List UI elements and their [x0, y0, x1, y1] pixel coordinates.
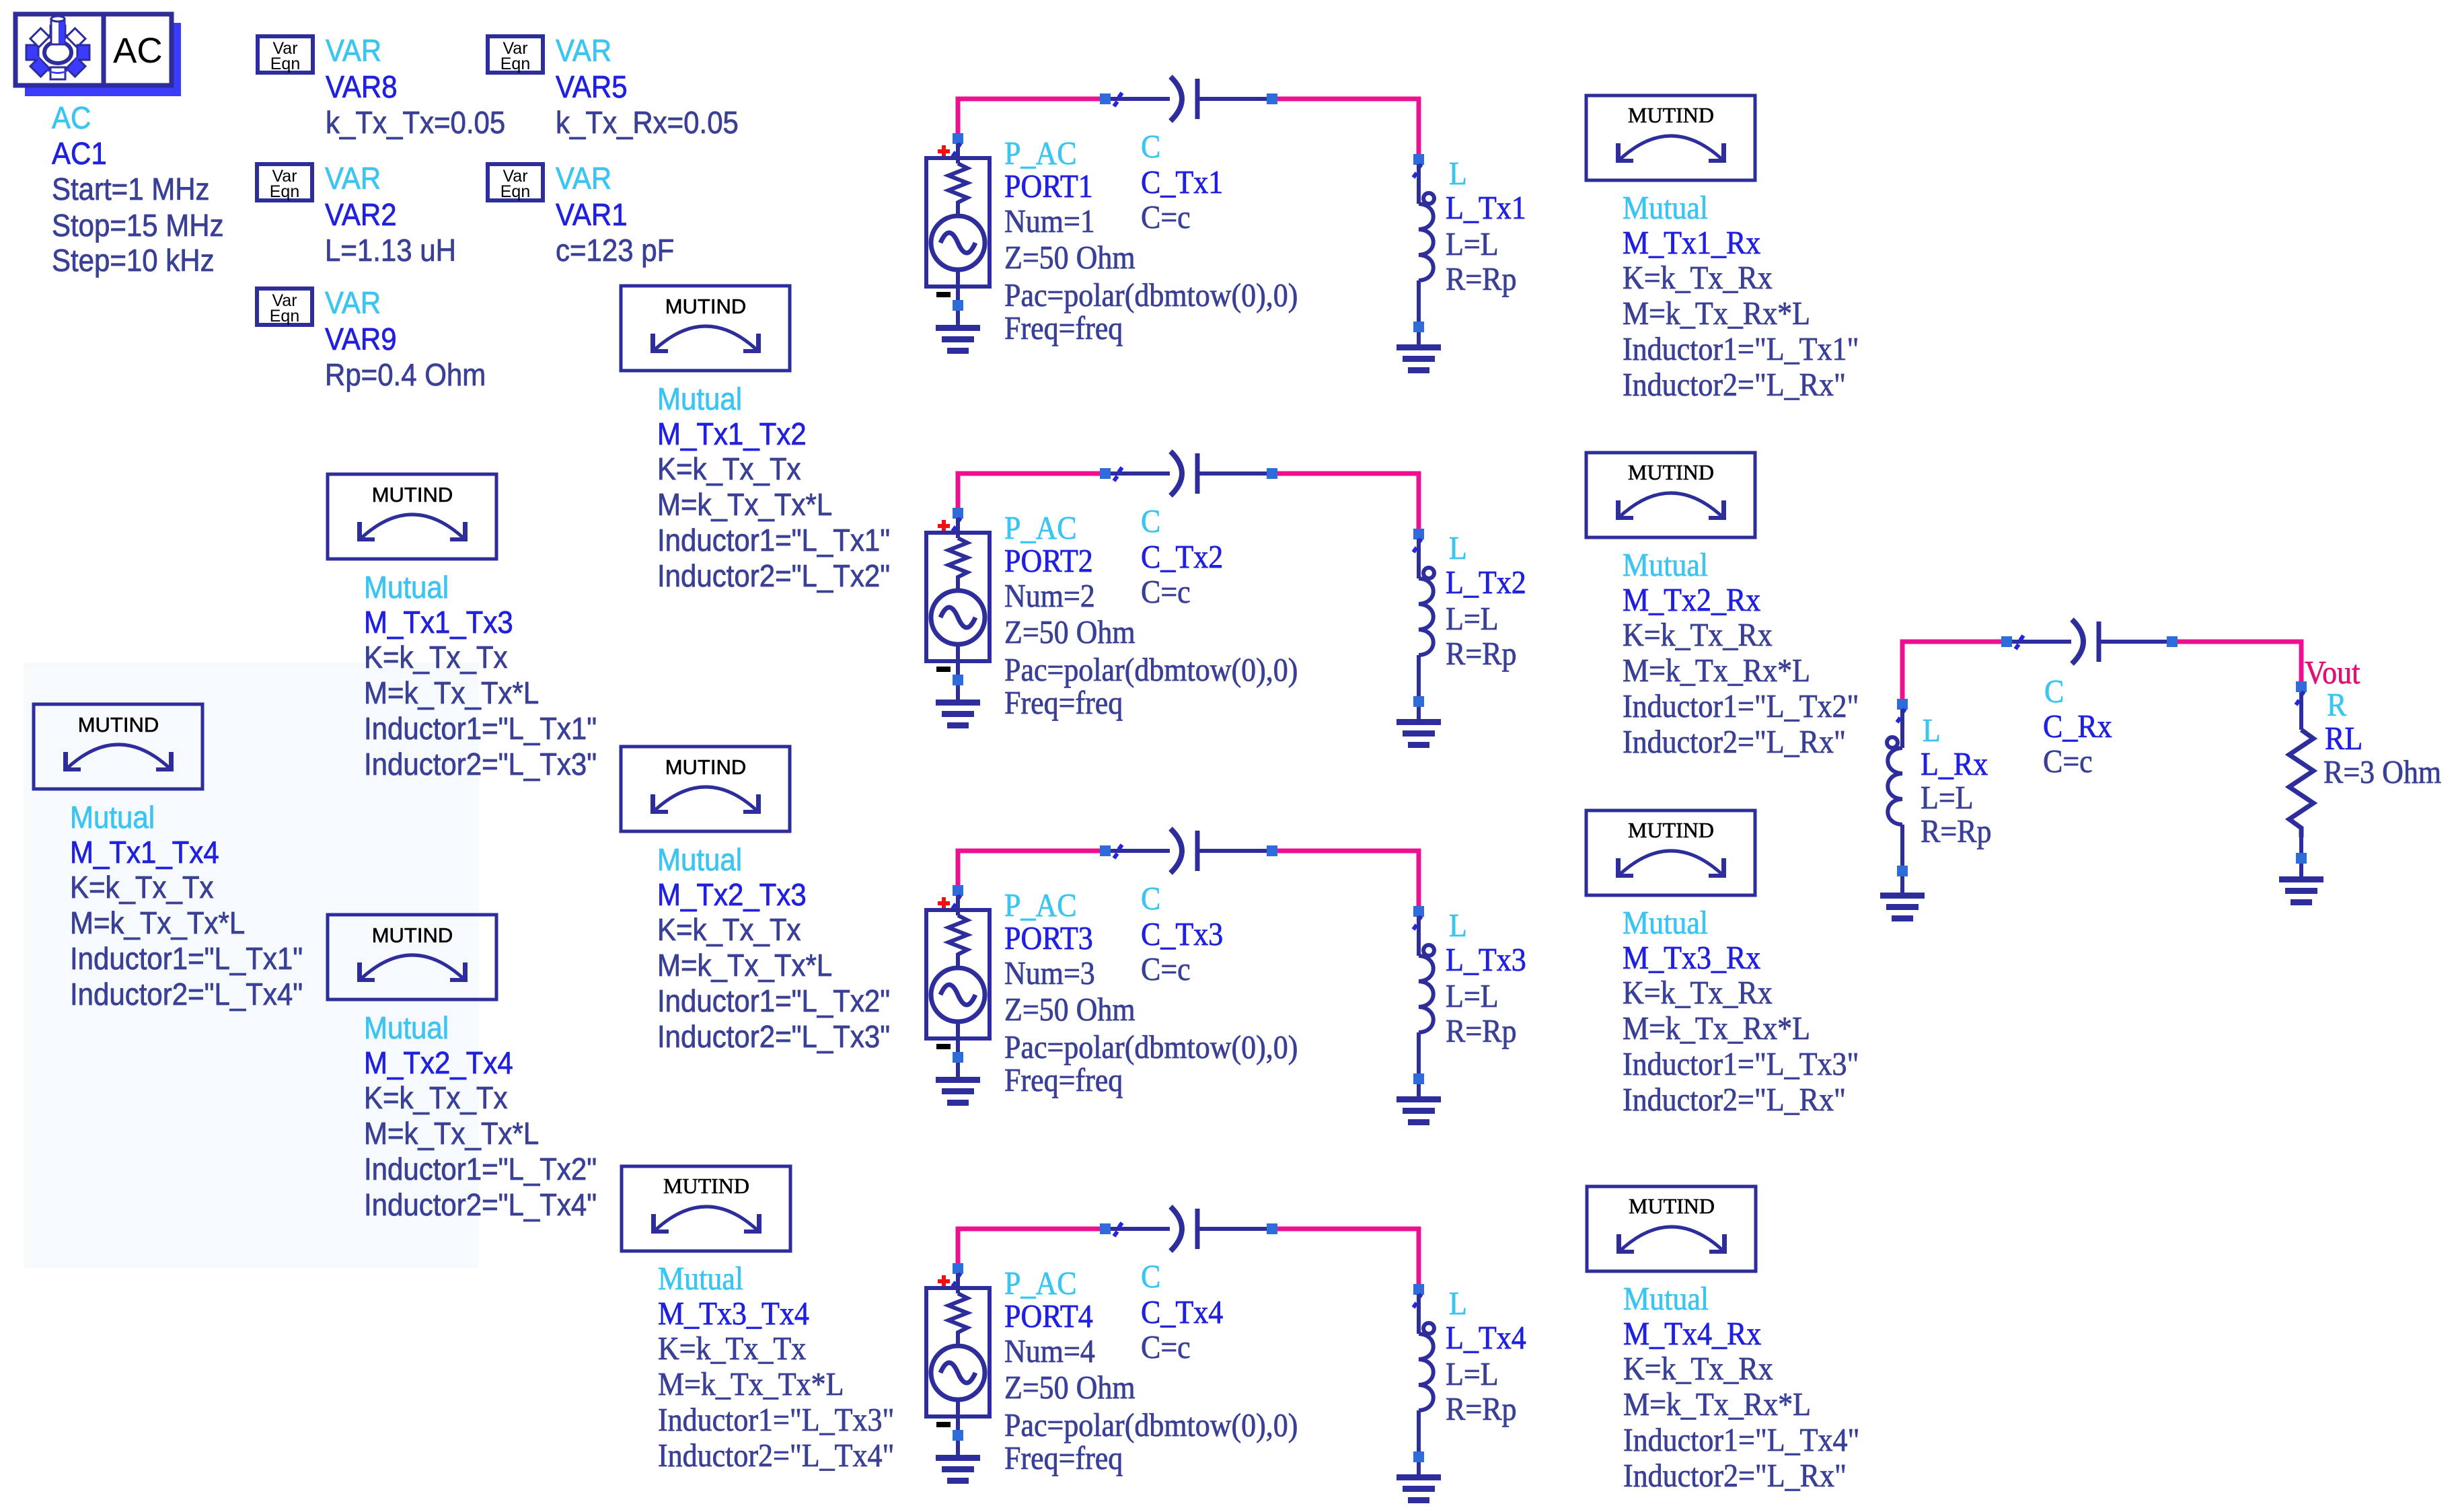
- svg-text:AC: AC: [113, 31, 163, 71]
- svg-text:Inductor1="L_Tx2": Inductor1="L_Tx2": [657, 984, 890, 1018]
- M_Tx1_Tx2 coupling arc: [655, 326, 757, 350]
- svg-text:M_Tx3_Tx4: M_Tx3_Tx4: [658, 1296, 809, 1332]
- wire C_Rx to Vout/RL: [2177, 642, 2301, 683]
- svg-text:C=c: C=c: [1141, 200, 1191, 236]
- svg-text:Z=50 Ohm: Z=50 Ohm: [1004, 615, 1136, 651]
- svg-text:K=k_Tx_Rx: K=k_Tx_Rx: [1623, 1351, 1773, 1388]
- node junction P1b: [1267, 93, 1277, 104]
- svg-text:R=Rp: R=Rp: [1446, 262, 1516, 298]
- svg-text:C: C: [1141, 504, 1160, 540]
- svg-text:Inductor1="L_Tx2": Inductor1="L_Tx2": [364, 1152, 597, 1186]
- svg-text:MUTIND: MUTIND: [663, 1174, 749, 1198]
- svg-text:C=c: C=c: [1141, 1330, 1191, 1366]
- node junction P4a: [1100, 1223, 1111, 1234]
- node junction Vout: [2296, 681, 2307, 692]
- pin PORT3.+: [953, 895, 961, 909]
- svg-text:K=k_Tx_Tx: K=k_Tx_Tx: [658, 1331, 806, 1367]
- svg-text:Inductor2="L_Rx": Inductor2="L_Rx": [1623, 1458, 1847, 1495]
- svg-text:L=L: L=L: [1446, 601, 1499, 638]
- minus sign PORT2: [936, 667, 951, 672]
- svg-text:L=1.13 uH: L=1.13 uH: [325, 233, 456, 268]
- svg-text:PORT3: PORT3: [1004, 921, 1093, 957]
- svg-text:AC1: AC1: [52, 137, 107, 171]
- node junction PORT2+: [953, 508, 963, 519]
- wire PORT3 to C_Tx3: [958, 851, 1101, 893]
- svg-text:PORT2: PORT2: [1004, 543, 1093, 580]
- svg-text:VAR: VAR: [325, 286, 381, 320]
- pin L_Tx2.1: [1413, 539, 1421, 552]
- svg-text:M_Tx2_Tx4: M_Tx2_Tx4: [364, 1046, 513, 1080]
- resistor of PORT2 source: [948, 538, 967, 592]
- svg-text:L=L: L=L: [1446, 227, 1499, 263]
- node junction P4b: [1267, 1223, 1277, 1234]
- svg-text:Pac=polar(dbmtow(0),0): Pac=polar(dbmtow(0),0): [1004, 1408, 1298, 1444]
- svg-text:Inductor1="L_Tx3": Inductor1="L_Tx3": [1623, 1047, 1859, 1083]
- resistor of PORT3 source: [948, 915, 967, 969]
- svg-text:M=k_Tx_Rx*L: M=k_Tx_Rx*L: [1623, 653, 1810, 689]
- svg-text:Eqn: Eqn: [270, 54, 300, 73]
- svg-text:M=k_Tx_Rx*L: M=k_Tx_Rx*L: [1623, 296, 1810, 332]
- M_Tx1_Tx4 coupling arc: [67, 745, 170, 768]
- ground PORT4: [936, 1455, 980, 1484]
- ground L_Tx3: [1397, 1096, 1441, 1125]
- node junction L_Tx4.1: [1413, 1284, 1424, 1295]
- node junction L_Tx1.1: [1413, 154, 1424, 165]
- svg-text:Eqn: Eqn: [500, 182, 530, 201]
- wire PORT4 to C_Tx4: [958, 1229, 1101, 1271]
- svg-text:Eqn: Eqn: [500, 54, 530, 73]
- svg-text:Inductor2="L_Rx": Inductor2="L_Rx": [1623, 724, 1846, 761]
- inductor L_Tx2: [1423, 568, 1434, 578]
- svg-text:L=L: L=L: [1446, 1357, 1499, 1393]
- node junction P1a: [1100, 93, 1111, 104]
- pin C_Tx1.1: [1114, 93, 1122, 106]
- inductor L_Tx1: [1423, 193, 1434, 204]
- svg-text:M=k_Tx_Tx*L: M=k_Tx_Tx*L: [658, 1367, 844, 1403]
- gear icon: [36, 34, 80, 71]
- node junction PORT1+: [953, 133, 963, 144]
- svg-text:VAR: VAR: [325, 161, 381, 196]
- svg-text:L_Tx2: L_Tx2: [1446, 565, 1526, 601]
- svg-text:Inductor1="L_Tx3": Inductor1="L_Tx3": [658, 1402, 894, 1439]
- svg-text:Inductor1="L_Tx1": Inductor1="L_Tx1": [364, 712, 597, 746]
- minus sign PORT4: [936, 1422, 951, 1427]
- svg-text:M=k_Tx_Rx*L: M=k_Tx_Rx*L: [1623, 1011, 1810, 1047]
- svg-text:C=c: C=c: [1141, 574, 1191, 611]
- svg-text:K=k_Tx_Rx: K=k_Tx_Rx: [1623, 975, 1773, 1012]
- sine source circle PORT4: [931, 1346, 985, 1400]
- svg-text:L: L: [1449, 531, 1467, 567]
- svg-text:MUTIND: MUTIND: [78, 713, 159, 736]
- inductor L_Rx: [1887, 737, 1898, 748]
- svg-text:Pac=polar(dbmtow(0),0): Pac=polar(dbmtow(0),0): [1004, 278, 1298, 314]
- resistor of PORT1 source: [948, 163, 967, 217]
- svg-text:M=k_Tx_Tx*L: M=k_Tx_Tx*L: [364, 1117, 539, 1151]
- svg-text:C=c: C=c: [1141, 952, 1191, 988]
- svg-text:P_AC: P_AC: [1004, 888, 1077, 924]
- svg-text:C_Tx3: C_Tx3: [1141, 917, 1223, 953]
- svg-text:Inductor2="L_Tx3": Inductor2="L_Tx3": [657, 1020, 890, 1054]
- svg-text:M_Tx4_Rx: M_Tx4_Rx: [1623, 1316, 1761, 1353]
- svg-text:Z=50 Ohm: Z=50 Ohm: [1004, 992, 1136, 1028]
- ground PORT2: [936, 700, 980, 728]
- resistor of PORT4 source: [948, 1293, 967, 1347]
- ground PORT1: [936, 325, 980, 354]
- node junction P2b: [1267, 468, 1277, 479]
- svg-text:Mutual: Mutual: [364, 1011, 449, 1045]
- svg-text:Mutual: Mutual: [1623, 1281, 1709, 1318]
- svg-text:VAR: VAR: [556, 161, 611, 196]
- svg-text:Inductor2="L_Tx4": Inductor2="L_Tx4": [70, 977, 303, 1012]
- wire C_Tx2 to L_Tx2: [1276, 474, 1419, 535]
- plus sign PORT3: [938, 897, 950, 909]
- svg-text:C_Tx1: C_Tx1: [1141, 165, 1223, 201]
- capacitor C_Tx2: [1111, 451, 1267, 496]
- svg-text:VAR: VAR: [326, 34, 381, 68]
- mutual inductor M_Tx2_Tx3 symbol (MUTIND box): [621, 747, 790, 831]
- mutual inductor M_Tx2_Rx symbol (MUTIND box): [1586, 453, 1755, 537]
- node junction L_Tx2.2: [1413, 696, 1424, 707]
- pin C_Rx.1: [2015, 636, 2023, 649]
- svg-text:MUTIND: MUTIND: [665, 755, 747, 779]
- svg-text:Inductor2="L_Rx": Inductor2="L_Rx": [1623, 1082, 1846, 1119]
- node junction P2a: [1100, 468, 1111, 479]
- svg-text:K=k_Tx_Tx: K=k_Tx_Tx: [364, 640, 508, 675]
- inductor L_Tx4: [1423, 1323, 1434, 1334]
- svg-text:M=k_Tx_Tx*L: M=k_Tx_Tx*L: [364, 676, 539, 710]
- svg-text:C_Tx2: C_Tx2: [1141, 539, 1223, 576]
- svg-text:Inductor2="L_Tx3": Inductor2="L_Tx3": [364, 747, 597, 782]
- node junction L_Tx4.2: [1413, 1451, 1424, 1462]
- ground L_Tx4: [1397, 1474, 1441, 1503]
- svg-text:Mutual: Mutual: [657, 843, 742, 877]
- svg-text:Eqn: Eqn: [270, 182, 299, 201]
- svg-text:Pac=polar(dbmtow(0),0): Pac=polar(dbmtow(0),0): [1004, 1030, 1298, 1066]
- capacitor C_Tx1: [1111, 77, 1267, 121]
- svg-text:MUTIND: MUTIND: [665, 295, 747, 318]
- svg-text:Inductor1="L_Tx4": Inductor1="L_Tx4": [1623, 1423, 1859, 1459]
- svg-text:Inductor1="L_Tx1": Inductor1="L_Tx1": [657, 523, 890, 558]
- svg-text:P_AC: P_AC: [1004, 136, 1077, 172]
- node junction PORT1-: [953, 300, 963, 311]
- svg-text:R: R: [2327, 687, 2346, 724]
- node junction L_Rx.1: [1897, 699, 1908, 710]
- svg-text:Freq=freq: Freq=freq: [1004, 1441, 1123, 1477]
- ground L_Rx: [1880, 893, 1925, 921]
- pin C_Tx4.1: [1114, 1223, 1122, 1236]
- svg-text:K=k_Tx_Tx: K=k_Tx_Tx: [364, 1081, 508, 1115]
- svg-text:Mutual: Mutual: [658, 1261, 743, 1297]
- M_Tx2_Tx3 coupling arc: [655, 787, 757, 810]
- M_Tx1_Tx3 coupling arc: [361, 515, 463, 538]
- svg-text:Freq=freq: Freq=freq: [1004, 311, 1123, 347]
- pin L_Tx4.1: [1413, 1294, 1421, 1308]
- minus sign PORT1: [936, 292, 951, 297]
- M_Tx3_Tx4 coupling arc: [655, 1207, 757, 1230]
- svg-text:C: C: [1141, 129, 1160, 165]
- svg-text:MUTIND: MUTIND: [1628, 103, 1714, 127]
- svg-text:L=L: L=L: [1446, 979, 1499, 1015]
- svg-text:M=k_Tx_Tx*L: M=k_Tx_Tx*L: [657, 948, 832, 983]
- svg-text:MUTIND: MUTIND: [372, 483, 453, 506]
- inductor L_Tx3: [1423, 945, 1434, 956]
- svg-text:Pac=polar(dbmtow(0),0): Pac=polar(dbmtow(0),0): [1004, 652, 1298, 689]
- svg-text:VAR5: VAR5: [556, 70, 628, 104]
- svg-text:VAR8: VAR8: [326, 70, 398, 104]
- svg-text:L=L: L=L: [1921, 780, 1974, 817]
- svg-text:K=k_Tx_Tx: K=k_Tx_Tx: [657, 913, 801, 947]
- VAR equation block VAR9: [257, 289, 312, 325]
- mutual inductor M_Tx3_Rx symbol (MUTIND box): [1586, 810, 1755, 895]
- svg-text:R=Rp: R=Rp: [1446, 1014, 1516, 1050]
- pin C_Tx2.1: [1114, 467, 1122, 481]
- svg-text:VAR1: VAR1: [556, 198, 628, 232]
- wire C_Tx3 to L_Tx3: [1276, 851, 1419, 913]
- svg-text:Mutual: Mutual: [70, 800, 155, 835]
- svg-text:Stop=15 MHz: Stop=15 MHz: [52, 209, 224, 243]
- node junction L_Tx1.2: [1413, 322, 1424, 332]
- ground RL: [2279, 876, 2323, 905]
- VAR equation block VAR5: [488, 36, 543, 73]
- mutual inductor M_Tx1_Tx3 symbol (MUTIND box): [328, 474, 496, 559]
- svg-text:Start=1 MHz: Start=1 MHz: [52, 172, 210, 206]
- resistor RL: [2299, 692, 2303, 730]
- wire L_Rx to C_Rx: [1902, 642, 2002, 706]
- capacitor C_Rx: [2012, 619, 2169, 664]
- pin PORT2.+: [953, 518, 961, 531]
- node junction PORT4+: [953, 1263, 963, 1274]
- node junction Rxa: [2001, 636, 2012, 647]
- plus sign PORT4: [938, 1275, 950, 1287]
- svg-text:Inductor2="L_Tx2": Inductor2="L_Tx2": [657, 559, 890, 593]
- svg-text:L: L: [1449, 1286, 1467, 1322]
- svg-text:R=Rp: R=Rp: [1921, 814, 1991, 850]
- sine source circle PORT2: [931, 591, 985, 644]
- node junction L_Rx.2: [1897, 866, 1908, 876]
- svg-text:VAR9: VAR9: [325, 322, 397, 356]
- mutual inductor M_Tx4_Rx symbol (MUTIND box): [1587, 1186, 1756, 1271]
- plus sign PORT2: [938, 520, 950, 532]
- minus sign PORT3: [936, 1044, 951, 1049]
- M_Tx4_Rx coupling arc: [1621, 1227, 1723, 1250]
- node junction PORT4-: [953, 1430, 963, 1441]
- svg-text:L: L: [1923, 713, 1941, 749]
- node junction PORT3-: [953, 1052, 963, 1063]
- svg-text:Num=1: Num=1: [1004, 204, 1095, 240]
- mutual inductor M_Tx1_Tx4 symbol (MUTIND box): [34, 704, 202, 789]
- svg-text:VAR: VAR: [556, 34, 611, 68]
- svg-text:Eqn: Eqn: [270, 307, 299, 326]
- svg-text:C: C: [2044, 674, 2064, 710]
- svg-text:AC: AC: [52, 101, 91, 135]
- svg-text:k_Tx_Rx=0.05: k_Tx_Rx=0.05: [556, 106, 739, 140]
- pin PORT4.+: [953, 1273, 961, 1287]
- svg-text:L_Tx3: L_Tx3: [1446, 942, 1526, 979]
- sine source circle PORT3: [931, 968, 985, 1022]
- svg-text:M=k_Tx_Tx*L: M=k_Tx_Tx*L: [657, 488, 832, 522]
- svg-text:R=Rp: R=Rp: [1446, 636, 1516, 673]
- svg-text:MUTIND: MUTIND: [1628, 818, 1714, 842]
- mutual inductor M_Tx2_Tx4 symbol (MUTIND box): [328, 915, 496, 999]
- mutual inductor M_Tx1_Tx2 symbol (MUTIND box): [621, 286, 790, 371]
- wire PORT2 to C_Tx2: [958, 474, 1101, 515]
- pin L_Tx1.1: [1413, 164, 1421, 178]
- svg-text:C_Tx4: C_Tx4: [1141, 1295, 1223, 1331]
- capacitor C_Tx3: [1111, 829, 1267, 873]
- ground L_Tx1: [1397, 344, 1441, 373]
- node junction PORT3+: [953, 885, 963, 896]
- svg-text:M_Tx1_Tx3: M_Tx1_Tx3: [364, 605, 513, 640]
- svg-text:Mutual: Mutual: [657, 382, 742, 416]
- pin C_Tx3.1: [1114, 845, 1122, 858]
- pin L_Tx3.1: [1413, 916, 1421, 930]
- svg-text:M_Tx2_Rx: M_Tx2_Rx: [1623, 582, 1760, 619]
- svg-text:Inductor1="L_Tx1": Inductor1="L_Tx1": [70, 942, 303, 976]
- svg-text:VAR2: VAR2: [325, 198, 397, 232]
- ground L_Tx2: [1397, 719, 1441, 748]
- svg-text:C_Rx: C_Rx: [2043, 709, 2112, 745]
- VAR equation block VAR8: [258, 36, 313, 73]
- svg-text:PORT1: PORT1: [1004, 169, 1093, 205]
- svg-text:Vout: Vout: [2305, 655, 2360, 691]
- node junction PORT2-: [953, 675, 963, 685]
- M_Tx1_Rx coupling arc: [1620, 136, 1722, 159]
- svg-text:L: L: [1449, 908, 1467, 944]
- svg-text:Freq=freq: Freq=freq: [1004, 1063, 1123, 1099]
- svg-text:M_Tx3_Rx: M_Tx3_Rx: [1623, 940, 1760, 977]
- svg-text:Inductor2="L_Rx": Inductor2="L_Rx": [1623, 367, 1846, 404]
- node junction Rxb: [2167, 636, 2178, 647]
- svg-text:R=Rp: R=Rp: [1446, 1392, 1516, 1428]
- svg-text:C=c: C=c: [2043, 744, 2093, 780]
- node junction P3a: [1100, 845, 1111, 856]
- svg-text:M=k_Tx_Tx*L: M=k_Tx_Tx*L: [70, 906, 245, 940]
- svg-text:L_Tx4: L_Tx4: [1446, 1320, 1526, 1357]
- svg-text:k_Tx_Tx=0.05: k_Tx_Tx=0.05: [326, 106, 505, 140]
- VAR equation block VAR1: [488, 164, 543, 200]
- svg-text:MUTIND: MUTIND: [1629, 1194, 1715, 1218]
- capacitor C_Tx4: [1111, 1207, 1267, 1251]
- svg-text:RL: RL: [2325, 721, 2362, 757]
- svg-text:Z=50 Ohm: Z=50 Ohm: [1004, 240, 1136, 276]
- svg-text:K=k_Tx_Rx: K=k_Tx_Rx: [1623, 617, 1773, 654]
- svg-text:PORT4: PORT4: [1004, 1299, 1093, 1335]
- wire C_Tx1 to L_Tx1: [1276, 99, 1419, 161]
- svg-text:Rp=0.4 Ohm: Rp=0.4 Ohm: [325, 358, 486, 392]
- svg-text:Z=50 Ohm: Z=50 Ohm: [1004, 1370, 1136, 1406]
- svg-text:Inductor2="L_Tx4": Inductor2="L_Tx4": [364, 1188, 597, 1222]
- node junction L_Tx3.1: [1413, 906, 1424, 917]
- svg-text:Freq=freq: Freq=freq: [1004, 685, 1123, 722]
- wire C_Tx4 to L_Tx4: [1276, 1229, 1419, 1291]
- svg-text:L: L: [1449, 156, 1467, 192]
- svg-text:MUTIND: MUTIND: [1628, 460, 1714, 484]
- svg-text:Step=10 kHz: Step=10 kHz: [52, 243, 215, 278]
- svg-text:Mutual: Mutual: [1623, 190, 1708, 227]
- pin RL.1: [2296, 691, 2304, 705]
- node junction L_Tx3.2: [1413, 1073, 1424, 1084]
- svg-text:K=k_Tx_Rx: K=k_Tx_Rx: [1623, 260, 1773, 297]
- M_Tx2_Tx4 coupling arc: [361, 955, 463, 979]
- svg-text:C: C: [1141, 1259, 1160, 1295]
- wire PORT1 to C_Tx1: [958, 99, 1101, 141]
- M_Tx3_Rx coupling arc: [1620, 851, 1722, 874]
- svg-text:K=k_Tx_Tx: K=k_Tx_Tx: [657, 452, 801, 486]
- svg-text:Num=4: Num=4: [1004, 1334, 1095, 1370]
- svg-text:M_Tx1_Tx4: M_Tx1_Tx4: [70, 835, 219, 870]
- mutual inductor M_Tx3_Tx4 symbol (MUTIND box): [622, 1166, 790, 1251]
- svg-text:M=k_Tx_Rx*L: M=k_Tx_Rx*L: [1623, 1387, 1811, 1423]
- node junction L_Tx2.1: [1413, 529, 1424, 539]
- svg-text:Mutual: Mutual: [1623, 905, 1708, 942]
- svg-text:MUTIND: MUTIND: [372, 923, 453, 947]
- ground PORT3: [936, 1077, 980, 1106]
- svg-text:M_Tx2_Tx3: M_Tx2_Tx3: [657, 878, 807, 912]
- VAR equation block VAR2: [257, 164, 312, 200]
- node junction P3b: [1267, 845, 1277, 856]
- svg-text:Num=3: Num=3: [1004, 956, 1095, 992]
- svg-text:Mutual: Mutual: [1623, 547, 1708, 584]
- svg-text:Inductor1="L_Tx2": Inductor1="L_Tx2": [1623, 689, 1859, 725]
- svg-text:R=3 Ohm: R=3 Ohm: [2323, 755, 2441, 791]
- node junction RL.2: [2296, 853, 2307, 864]
- plus sign PORT1: [938, 145, 950, 157]
- sine source circle PORT1: [931, 216, 985, 270]
- svg-text:M_Tx1_Tx2: M_Tx1_Tx2: [657, 417, 807, 451]
- svg-text:P_AC: P_AC: [1004, 511, 1077, 547]
- M_Tx2_Rx coupling arc: [1620, 493, 1722, 517]
- svg-text:P_AC: P_AC: [1004, 1266, 1077, 1302]
- AC simulation controller icon: [25, 23, 181, 96]
- svg-text:C: C: [1141, 881, 1160, 917]
- svg-text:Mutual: Mutual: [364, 570, 449, 605]
- svg-text:L_Tx1: L_Tx1: [1446, 190, 1526, 227]
- svg-text:Inductor1="L_Tx1": Inductor1="L_Tx1": [1623, 332, 1859, 368]
- svg-text:K=k_Tx_Tx: K=k_Tx_Tx: [70, 870, 214, 905]
- svg-text:Inductor2="L_Tx4": Inductor2="L_Tx4": [658, 1438, 894, 1474]
- svg-text:M_Tx1_Rx: M_Tx1_Rx: [1623, 225, 1760, 262]
- svg-text:Num=2: Num=2: [1004, 578, 1095, 615]
- svg-text:L_Rx: L_Rx: [1921, 747, 1988, 783]
- mutual inductor M_Tx1_Rx symbol (MUTIND box): [1586, 96, 1755, 180]
- pin PORT1.+: [953, 143, 961, 157]
- pin L_Rx.1: [1897, 709, 1905, 722]
- svg-text:c=123 pF: c=123 pF: [556, 233, 674, 268]
